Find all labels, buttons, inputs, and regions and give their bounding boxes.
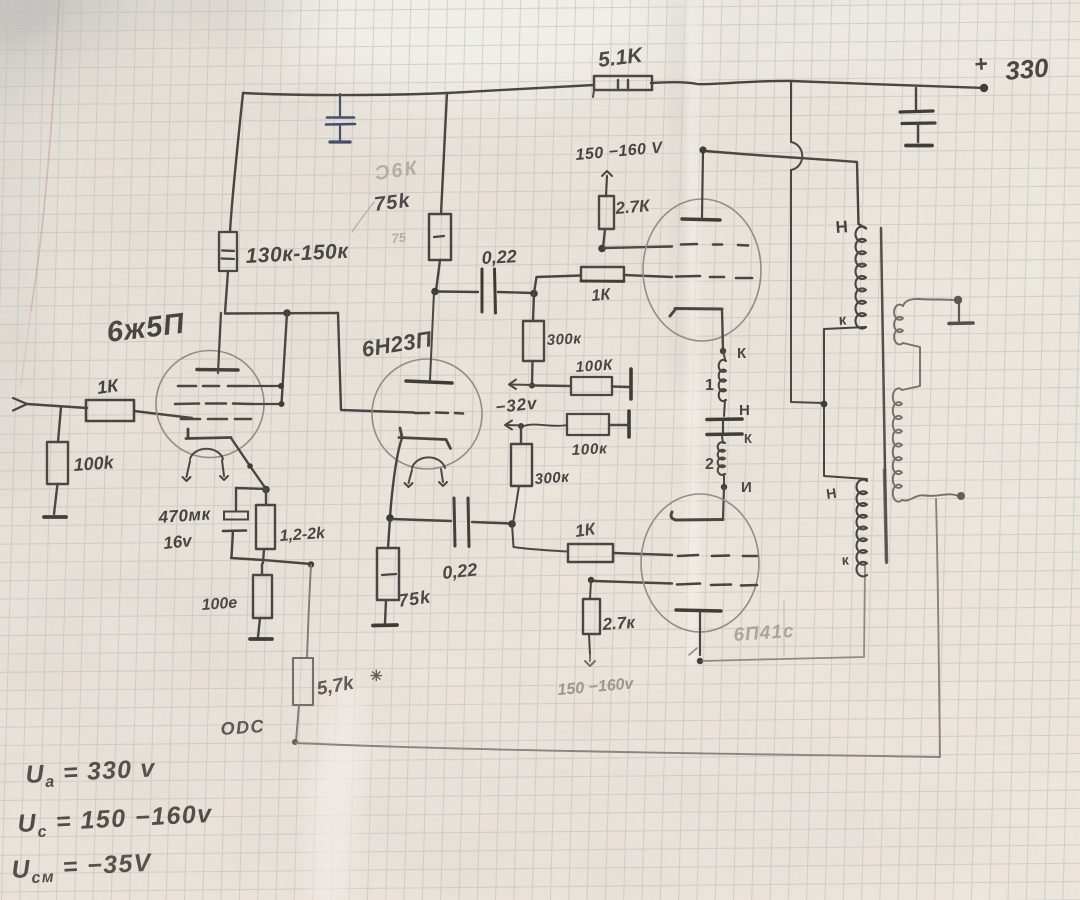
wire primary tap jog [824, 327, 867, 479]
resistor 100k lower with terminal [524, 411, 629, 459]
ghost marks 75 [391, 229, 408, 246]
wire feedback bottom run [296, 743, 940, 757]
tube 6Zh5P label [105, 308, 187, 349]
resistor 5,7k feedback [293, 658, 383, 741]
resistor 2.7k lower [583, 580, 637, 655]
tube 6Zh5P control grid row [181, 418, 251, 421]
tube 6N23P cathode [399, 428, 451, 449]
tube 6Zh5P grid 3 row [175, 402, 281, 405]
wire upper anode to transformer [706, 151, 866, 229]
wire to 1K lower [512, 524, 568, 552]
wire top-left horizontal rail [243, 93, 447, 95]
wire chain to lower cathode [723, 487, 724, 519]
wire input to 1K [27, 404, 87, 408]
resistor 100e [201, 564, 272, 637]
label Ua = 330 v [25, 754, 157, 792]
label 75k upper [373, 190, 412, 216]
node secondary output blob [957, 492, 965, 500]
wire screen lower [594, 581, 672, 584]
wire cathode 6N23P down [390, 438, 402, 517]
transformer primary upper winding [856, 227, 866, 329]
node cathode diag junction [247, 463, 253, 469]
wire 0,22 to riser [498, 292, 533, 293]
capacitor 0,22 lower [391, 498, 511, 583]
node 0,22 lower output [508, 520, 516, 528]
label H primary bottom [825, 485, 837, 502]
capacitor 470mu 16v [157, 504, 248, 557]
wire screen upper [604, 247, 672, 249]
node divider lower [518, 423, 524, 429]
capacitor 0,22 upper [481, 246, 517, 313]
label -32v [494, 394, 539, 417]
label 150-160V upper [575, 139, 664, 164]
terminal bar secondary top [949, 303, 973, 324]
tube 6Zh5P anode [197, 313, 238, 373]
resistor 100k input [47, 442, 115, 484]
node grid3 junction [279, 401, 285, 407]
node anode bus junction [283, 309, 291, 317]
node +330 supply terminal [974, 50, 1051, 92]
tube 6P41S upper envelope [643, 199, 761, 341]
wire lower anode to transformer [703, 566, 865, 661]
wire 1K lower to control grid [613, 553, 672, 555]
ghost pencil stroke [352, 202, 374, 232]
wire secondary top lead [903, 299, 953, 306]
node anode 6N23P junction [431, 288, 439, 296]
wire node to 0,22 cap [437, 290, 478, 293]
node screen lower junction [588, 577, 594, 583]
tube 6P41S upper screen grid row [681, 244, 748, 246]
heater bar upper [707, 417, 742, 421]
resistor 1K input [86, 375, 134, 421]
arrow bias upper [509, 380, 532, 390]
wire feedback vertical [936, 499, 940, 756]
label OOC [220, 716, 266, 739]
tube 6P41S upper cathode [670, 309, 723, 352]
resistor 1,2-2k [256, 490, 327, 563]
resistor 300k upper [523, 293, 583, 385]
node lower chain [721, 479, 752, 496]
inductor cathode coil 2 [705, 436, 725, 486]
resistor 1K lower [568, 519, 613, 562]
ghost label 6P41S [733, 621, 795, 646]
tube 6P41S lower cathode [671, 512, 723, 520]
node 0,22 output junction [530, 290, 538, 298]
node screen upper junction [598, 245, 606, 253]
node cathode junction lower [386, 514, 394, 522]
label K primary top end [838, 311, 847, 329]
ghost vertical near lower tube [783, 601, 785, 656]
wire rail right of 5.1K to +330 terminal [651, 81, 984, 88]
wire to 6N23P grid [338, 313, 414, 413]
node grid2 junction [278, 383, 284, 389]
tube 6Zh5P envelope [156, 351, 264, 458]
wire horizontal anode bus [225, 312, 338, 315]
node lower anode junction [697, 658, 703, 664]
wire 100k to ground [54, 484, 58, 514]
node upper anode junction [699, 146, 706, 153]
resistor 100K upper with terminal [535, 356, 631, 399]
inductor cathode coil 1 [705, 351, 726, 416]
capacitor blue decoupling top-left [326, 94, 355, 142]
tube 6N23P grid [415, 413, 463, 414]
wire 1K to control grid of 6Zh5P [134, 411, 192, 418]
wire junction down to 100k [58, 407, 61, 442]
tube 6P41S upper anode [682, 151, 720, 220]
label H upper chain [739, 402, 750, 419]
node cathode bus right [308, 561, 314, 567]
tube 6P41S lower envelope [641, 494, 759, 632]
wire B+ center tap drop with hop [791, 81, 823, 403]
tube 6N23P envelope [372, 359, 482, 469]
node cathode network top [262, 486, 270, 494]
wire to 470u cap [236, 488, 266, 511]
transformer secondary upper winding [894, 305, 903, 345]
transformer core line [881, 228, 887, 563]
wire to 5.7k feedback resistor [307, 565, 311, 658]
wire riser to 1K upper [534, 276, 581, 294]
tube 6P41S lower anode [676, 610, 721, 655]
heater bar lower [707, 421, 752, 446]
arrow down 150-160v lower [585, 655, 595, 666]
transformer secondary lower winding [893, 388, 902, 501]
resistor 1K upper [581, 267, 624, 305]
wire rail down to 75k [441, 93, 447, 214]
ghost label 150-160v lower [557, 675, 635, 699]
node upper cathode K [720, 345, 747, 362]
tube 6Zh5P heater arc [183, 449, 229, 481]
node OOC [292, 739, 298, 745]
wire 130k resistor to anode node [225, 271, 228, 313]
ghost label 6K [374, 157, 421, 185]
wire 75k to coupling node [436, 260, 440, 291]
label Uc = 150-160v [17, 800, 214, 842]
ground 75k lower [373, 623, 397, 627]
tube 6N23P heater arc [405, 457, 448, 487]
label K primary bottom end [841, 551, 850, 568]
wire rail rise to 5.1K resistor [447, 85, 594, 93]
wire screen-grid drop [282, 313, 288, 404]
arrow bias lower [505, 421, 521, 430]
node center tap [821, 401, 828, 408]
wire secondary jog [902, 343, 920, 390]
wire left vertical from rail down to 130k resistor [230, 93, 243, 232]
tube 6P41S upper control grid row [676, 276, 752, 278]
arrow up 150-160V [602, 171, 612, 196]
node divider upper [529, 383, 535, 389]
wire secondary bottom lead [902, 494, 958, 500]
input arrow [13, 398, 27, 411]
tube 6P41S lower control grid row [678, 555, 757, 556]
resistor 5.1K [593, 44, 652, 97]
tube 6N23P anode [406, 292, 452, 383]
node secondary top terminal [954, 296, 962, 304]
ground input 100k [44, 515, 66, 519]
tube 6Zh5P grid 2 row [178, 385, 281, 388]
tube 6P41S lower screen grid row [677, 584, 757, 586]
tube 6Zh5P cathode [186, 429, 231, 439]
ground 100e [250, 637, 272, 641]
label H primary top [835, 217, 849, 237]
capacitor filter at +330 [900, 88, 935, 146]
resistor 75k upper [429, 214, 451, 260]
wire 1K to control grid upper tube [624, 275, 672, 277]
transformer primary lower winding [856, 480, 867, 577]
resistor 2.7K upper [599, 196, 652, 248]
label Ucm = -35V [11, 849, 154, 888]
resistor 130k-150k [219, 232, 350, 271]
resistor 300k lower [511, 426, 571, 523]
tube 6N23P label [360, 326, 435, 362]
wire cathode to RC network [231, 438, 266, 489]
resistor 75k lower [377, 518, 432, 623]
wire cathode bus horizontal [231, 558, 311, 564]
